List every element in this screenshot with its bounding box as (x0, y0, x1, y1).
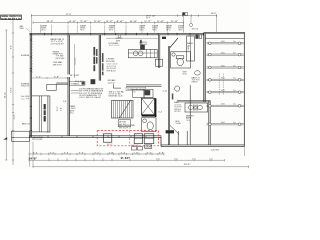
svg-text:TMP GL: TMP GL (166, 29, 171, 31)
svg-text:2'-6: 2'-6 (79, 152, 84, 154)
svg-text:4'-0": 4'-0" (69, 21, 77, 23)
note leader block center-left (71, 88, 104, 99)
note block corridor lower (69, 106, 76, 115)
svg-text:(2)2x10: (2)2x10 (108, 82, 115, 84)
svg-text:34'-10": 34'-10" (5, 92, 7, 98)
svg-text:1'-8: 1'-8 (159, 152, 164, 154)
stair note leader rows (109, 90, 125, 97)
dark hearth box (166, 130, 174, 133)
svg-text:4'-6: 4'-6 (174, 158, 178, 160)
svg-text:14'-1 5/8": 14'-1 5/8" (70, 75, 80, 77)
door swing diagonal (170, 38, 178, 48)
svg-text:B/O 6-8: B/O 6-8 (192, 28, 198, 30)
svg-text:54'-8": 54'-8" (29, 156, 38, 160)
interior wall F vertical (189, 85, 191, 145)
wall label T-WALL box (70, 79, 96, 85)
svg-text:50GAL: 50GAL (175, 122, 181, 125)
laundry box label (132, 145, 152, 150)
svg-text:16oc: 16oc (233, 78, 236, 80)
svg-text:27'-4": 27'-4" (66, 14, 72, 16)
dimension line top tier B (33, 21, 183, 24)
tiny rotated text next to wall E (172, 94, 174, 100)
svg-text:16oc: 16oc (233, 52, 236, 54)
dimension line bottom tier 3 (33, 164, 249, 168)
exterior wall right (243, 32, 245, 146)
closet boxes above stair (133, 89, 153, 97)
svg-text:30x80: 30x80 (221, 78, 225, 80)
closet partitions bedroom3 (32, 96, 50, 133)
pantry label (116, 38, 148, 46)
svg-text:SHWR: SHWR (183, 71, 188, 73)
note text above red box (119, 124, 136, 129)
svg-text:24'-0": 24'-0" (184, 164, 191, 166)
svg-text:36x36: 36x36 (183, 73, 187, 75)
dimension witness ticks to wall (40, 16, 191, 33)
room label living room (106, 58, 118, 72)
texts left wall egress (21, 55, 30, 125)
svg-text:30x80: 30x80 (221, 52, 225, 54)
refrigerator box (155, 59, 162, 66)
svg-text:2'-2: 2'-2 (50, 152, 55, 154)
svg-text:CL: CL (133, 92, 135, 94)
svg-text:U.N.O. SEE DTL 5/A-501: U.N.O. SEE DTL 5/A-501 (79, 96, 101, 99)
svg-text:NOTES SEE SHT A-001: NOTES SEE SHT A-001 (1, 17, 22, 20)
dimension line left outer (5, 30, 8, 160)
svg-text:TMP GL: TMP GL (80, 29, 85, 31)
svg-text:5'-4": 5'-4" (171, 21, 179, 23)
door tag dark mark (162, 37, 166, 39)
interior wall D kitchen vertical (158, 35, 159, 68)
svg-text:2'-4: 2'-4 (121, 152, 126, 154)
interior wall B horizontal stub (56, 83, 68, 84)
svg-text:4'-6: 4'-6 (192, 158, 196, 160)
red note text fragments (107, 144, 140, 147)
interior wall E vertical center-right (168, 46, 169, 145)
room label bedroom upper-left (51, 39, 65, 45)
interior wall G vertical right-section (204, 34, 205, 102)
svg-text:9'-2 1/2": 9'-2 1/2" (75, 57, 77, 64)
svg-text:SEE NOTE: SEE NOTE (53, 64, 63, 66)
exterior wall top right wing (204, 32, 245, 38)
rotated closet text strip (44, 104, 46, 122)
svg-text:4'-6": 4'-6" (116, 21, 124, 23)
svg-text:3'-6: 3'-6 (33, 152, 38, 154)
svg-text:16oc: 16oc (233, 65, 236, 67)
text WH label (175, 121, 181, 125)
svg-text:30x80: 30x80 (221, 122, 225, 124)
svg-text:11'-4": 11'-4" (14, 114, 16, 119)
svg-text:TMP GL: TMP GL (41, 29, 46, 31)
title note box (1, 15, 22, 20)
interior wall A vertical corridor (68, 35, 69, 136)
svg-text:LAUN: LAUN (145, 146, 152, 149)
svg-text:24'-6": 24'-6" (211, 13, 217, 15)
svg-text:V.I.F.: V.I.F. (146, 17, 151, 19)
note tag with leader near top-left corner (19, 26, 30, 32)
svg-text:5'-6": 5'-6" (80, 21, 88, 23)
svg-text:SEE NOTE 12: SEE NOTE 12 (119, 127, 131, 129)
svg-text:2'-0: 2'-0 (147, 152, 152, 154)
short wall segments below hearth (178, 131, 187, 145)
rotated dimension text room left of wall C (75, 44, 77, 78)
island counter line (113, 84, 161, 91)
svg-text:5'-2": 5'-2" (36, 76, 42, 78)
rotated text strips along wall C (93, 47, 103, 75)
closet dashed lines right wing (219, 74, 223, 96)
interior wall C vertical (99, 35, 100, 81)
svg-text:16oc: 16oc (233, 104, 236, 106)
text block right section mid (183, 71, 201, 84)
powder room fixtures (171, 52, 191, 68)
right wing partition shelves with end circles (207, 41, 244, 126)
svg-text:ISLAND 36" HIGH: ISLAND 36" HIGH (127, 88, 145, 91)
svg-text:1'-10: 1'-10 (134, 152, 139, 154)
desk box bedroom2 (47, 84, 56, 90)
svg-text:2'-4: 2'-4 (64, 152, 69, 154)
upper cabinet dashed line kitchen (106, 37, 158, 39)
exterior wall bottom lower step (161, 137, 245, 146)
svg-text:HANDRAIL 34-38: HANDRAIL 34-38 (109, 95, 123, 98)
svg-text:RELOC: RELOC (107, 144, 113, 146)
svg-text:6'-4": 6'-4" (130, 21, 138, 23)
svg-text:O.C. TYP: O.C. TYP (21, 98, 30, 100)
stair run with treads (112, 101, 134, 119)
svg-text:2/A3: 2/A3 (19, 27, 23, 30)
dishwasher dark box (140, 45, 145, 50)
svg-text:TMP GL: TMP GL (109, 29, 114, 31)
svg-text:GR-2: GR-2 (69, 113, 74, 115)
svg-text:6-8: 6-8 (63, 101, 66, 103)
door swing near wall E into hall (170, 125, 179, 134)
dashed reference line left interior (32, 35, 34, 73)
hall text right of elevator (174, 101, 182, 113)
svg-text:16oc: 16oc (233, 122, 236, 124)
text cluster below bottom wall left (32, 137, 43, 141)
rotated corridor dimension texts (57, 106, 62, 111)
svg-text:WINDOW: WINDOW (21, 86, 29, 88)
svg-text:1'-8: 1'-8 (109, 152, 114, 154)
tall closet right section (187, 36, 195, 61)
dimension line bottom tier 2 (29, 156, 225, 161)
water heater circle (175, 86, 180, 91)
svg-text:4x10 HDR: 4x10 HDR (211, 150, 220, 152)
svg-text:30x80: 30x80 (221, 41, 225, 43)
interior wall bath bottom horizontal (177, 101, 210, 102)
svg-text:16oc: 16oc (233, 41, 236, 43)
bathroom fixtures below stair (142, 118, 157, 132)
svg-text:11'-0": 11'-0" (57, 106, 59, 111)
svg-text:TMP GL: TMP GL (178, 29, 183, 31)
text block below living room (108, 79, 116, 84)
svg-text:16oc: 16oc (233, 90, 236, 92)
door tag circle on top wall (118, 35, 121, 38)
exterior wall left (30, 33, 32, 138)
witness line right wall to dim (243, 147, 245, 156)
dimension texts tier B (46, 21, 178, 23)
dimension extension line right (216, 14, 218, 32)
svg-text:EGRESS: EGRESS (21, 55, 30, 57)
fixtures right section top (195, 34, 201, 39)
dimension line bottom tier 1 (29, 152, 164, 155)
svg-text:CLG HT 8-0 WD FLR: CLG HT 8-0 WD FLR (51, 43, 64, 45)
svg-text:5'-4: 5'-4 (158, 111, 162, 113)
svg-text:9'-6": 9'-6" (11, 45, 13, 49)
svg-text:NOTE 6: NOTE 6 (174, 111, 181, 113)
bedroom2 interior dimension line (32, 75, 86, 83)
svg-text:FR DOORS: FR DOORS (32, 139, 43, 141)
svg-text:4'-6: 4'-6 (156, 158, 160, 160)
kitchen counter with cooktop (128, 40, 157, 58)
porch stoop outline bottom-left (12, 131, 30, 141)
svg-text:TMP GL: TMP GL (152, 29, 157, 31)
svg-text:2'-11: 2'-11 (163, 91, 167, 93)
svg-text:10'-0" x 11'-4": 10'-0" x 11'-4" (109, 45, 120, 47)
svg-text:2'-2: 2'-2 (94, 152, 99, 154)
svg-text:T-WALL: T-WALL (70, 82, 81, 85)
svg-text:30x80: 30x80 (221, 65, 225, 67)
red dashed highlight box (97, 131, 158, 146)
svg-text:NEW W/D: NEW W/D (131, 145, 140, 147)
svg-text:SEE A-201: SEE A-201 (106, 70, 116, 73)
exterior wall bottom (30, 135, 162, 137)
text below vanity (186, 114, 194, 121)
bath label right of kitchen (187, 42, 193, 47)
dimension line overall top (31, 12, 216, 33)
window tag texts row (41, 25, 185, 31)
svg-text:5'-8": 5'-8" (54, 76, 60, 78)
svg-text:30x80: 30x80 (221, 104, 225, 106)
svg-text:4'-6: 4'-6 (209, 158, 213, 160)
room note upper-left small (53, 51, 66, 66)
cabinet boxes inside red area (103, 134, 153, 144)
witness lines from wall corner to dims (29, 138, 33, 167)
vanity with double sinks (185, 103, 208, 112)
svg-text:FAN/LT: FAN/LT (192, 80, 199, 83)
svg-text:5'-6": 5'-6" (94, 21, 102, 23)
exterior wall top (30, 33, 204, 35)
svg-text:12'-2": 12'-2" (11, 87, 13, 92)
svg-text:4'-2": 4'-2" (106, 21, 114, 23)
svg-text:5'-0": 5'-0" (157, 21, 165, 23)
kitchen label (109, 43, 120, 47)
stair label box (118, 120, 130, 127)
svg-text:LINEN: LINEN (188, 45, 190, 51)
elevator shaft with X (142, 98, 157, 117)
svg-text:11'-2": 11'-2" (46, 21, 54, 23)
svg-text:TMP GL: TMP GL (139, 29, 144, 31)
interior wall H vertical right lower (209, 101, 210, 145)
svg-text:9'-10": 9'-10" (121, 158, 131, 160)
svg-text:DET.: DET. (53, 53, 58, 55)
svg-text:3'-4": 3'-4" (60, 107, 62, 111)
dimension line left inner (11, 16, 16, 165)
svg-text:5'-2": 5'-2" (144, 21, 152, 23)
small dim texts near elevator (158, 91, 167, 114)
grade mark left (3, 137, 7, 139)
svg-text:30x80: 30x80 (221, 90, 225, 92)
svg-text:FIN SCHED: FIN SCHED (56, 58, 66, 60)
svg-text:BED #3: BED #3 (22, 124, 30, 126)
